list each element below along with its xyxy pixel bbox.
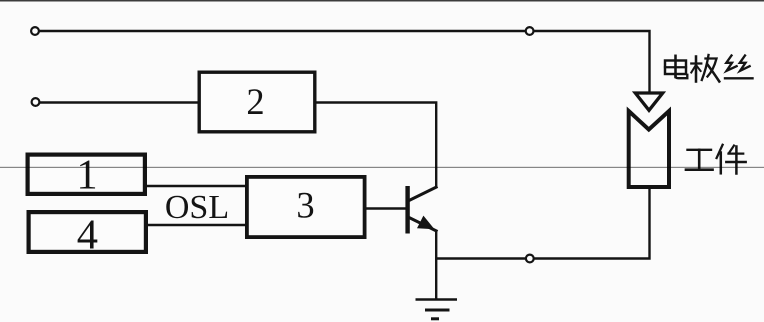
svg-text:3: 3 [296,184,314,225]
svg-text:4: 4 [77,212,98,259]
svg-text:OSL: OSL [165,189,229,226]
svg-text:1: 1 [76,152,97,199]
svg-text:2: 2 [246,81,264,122]
